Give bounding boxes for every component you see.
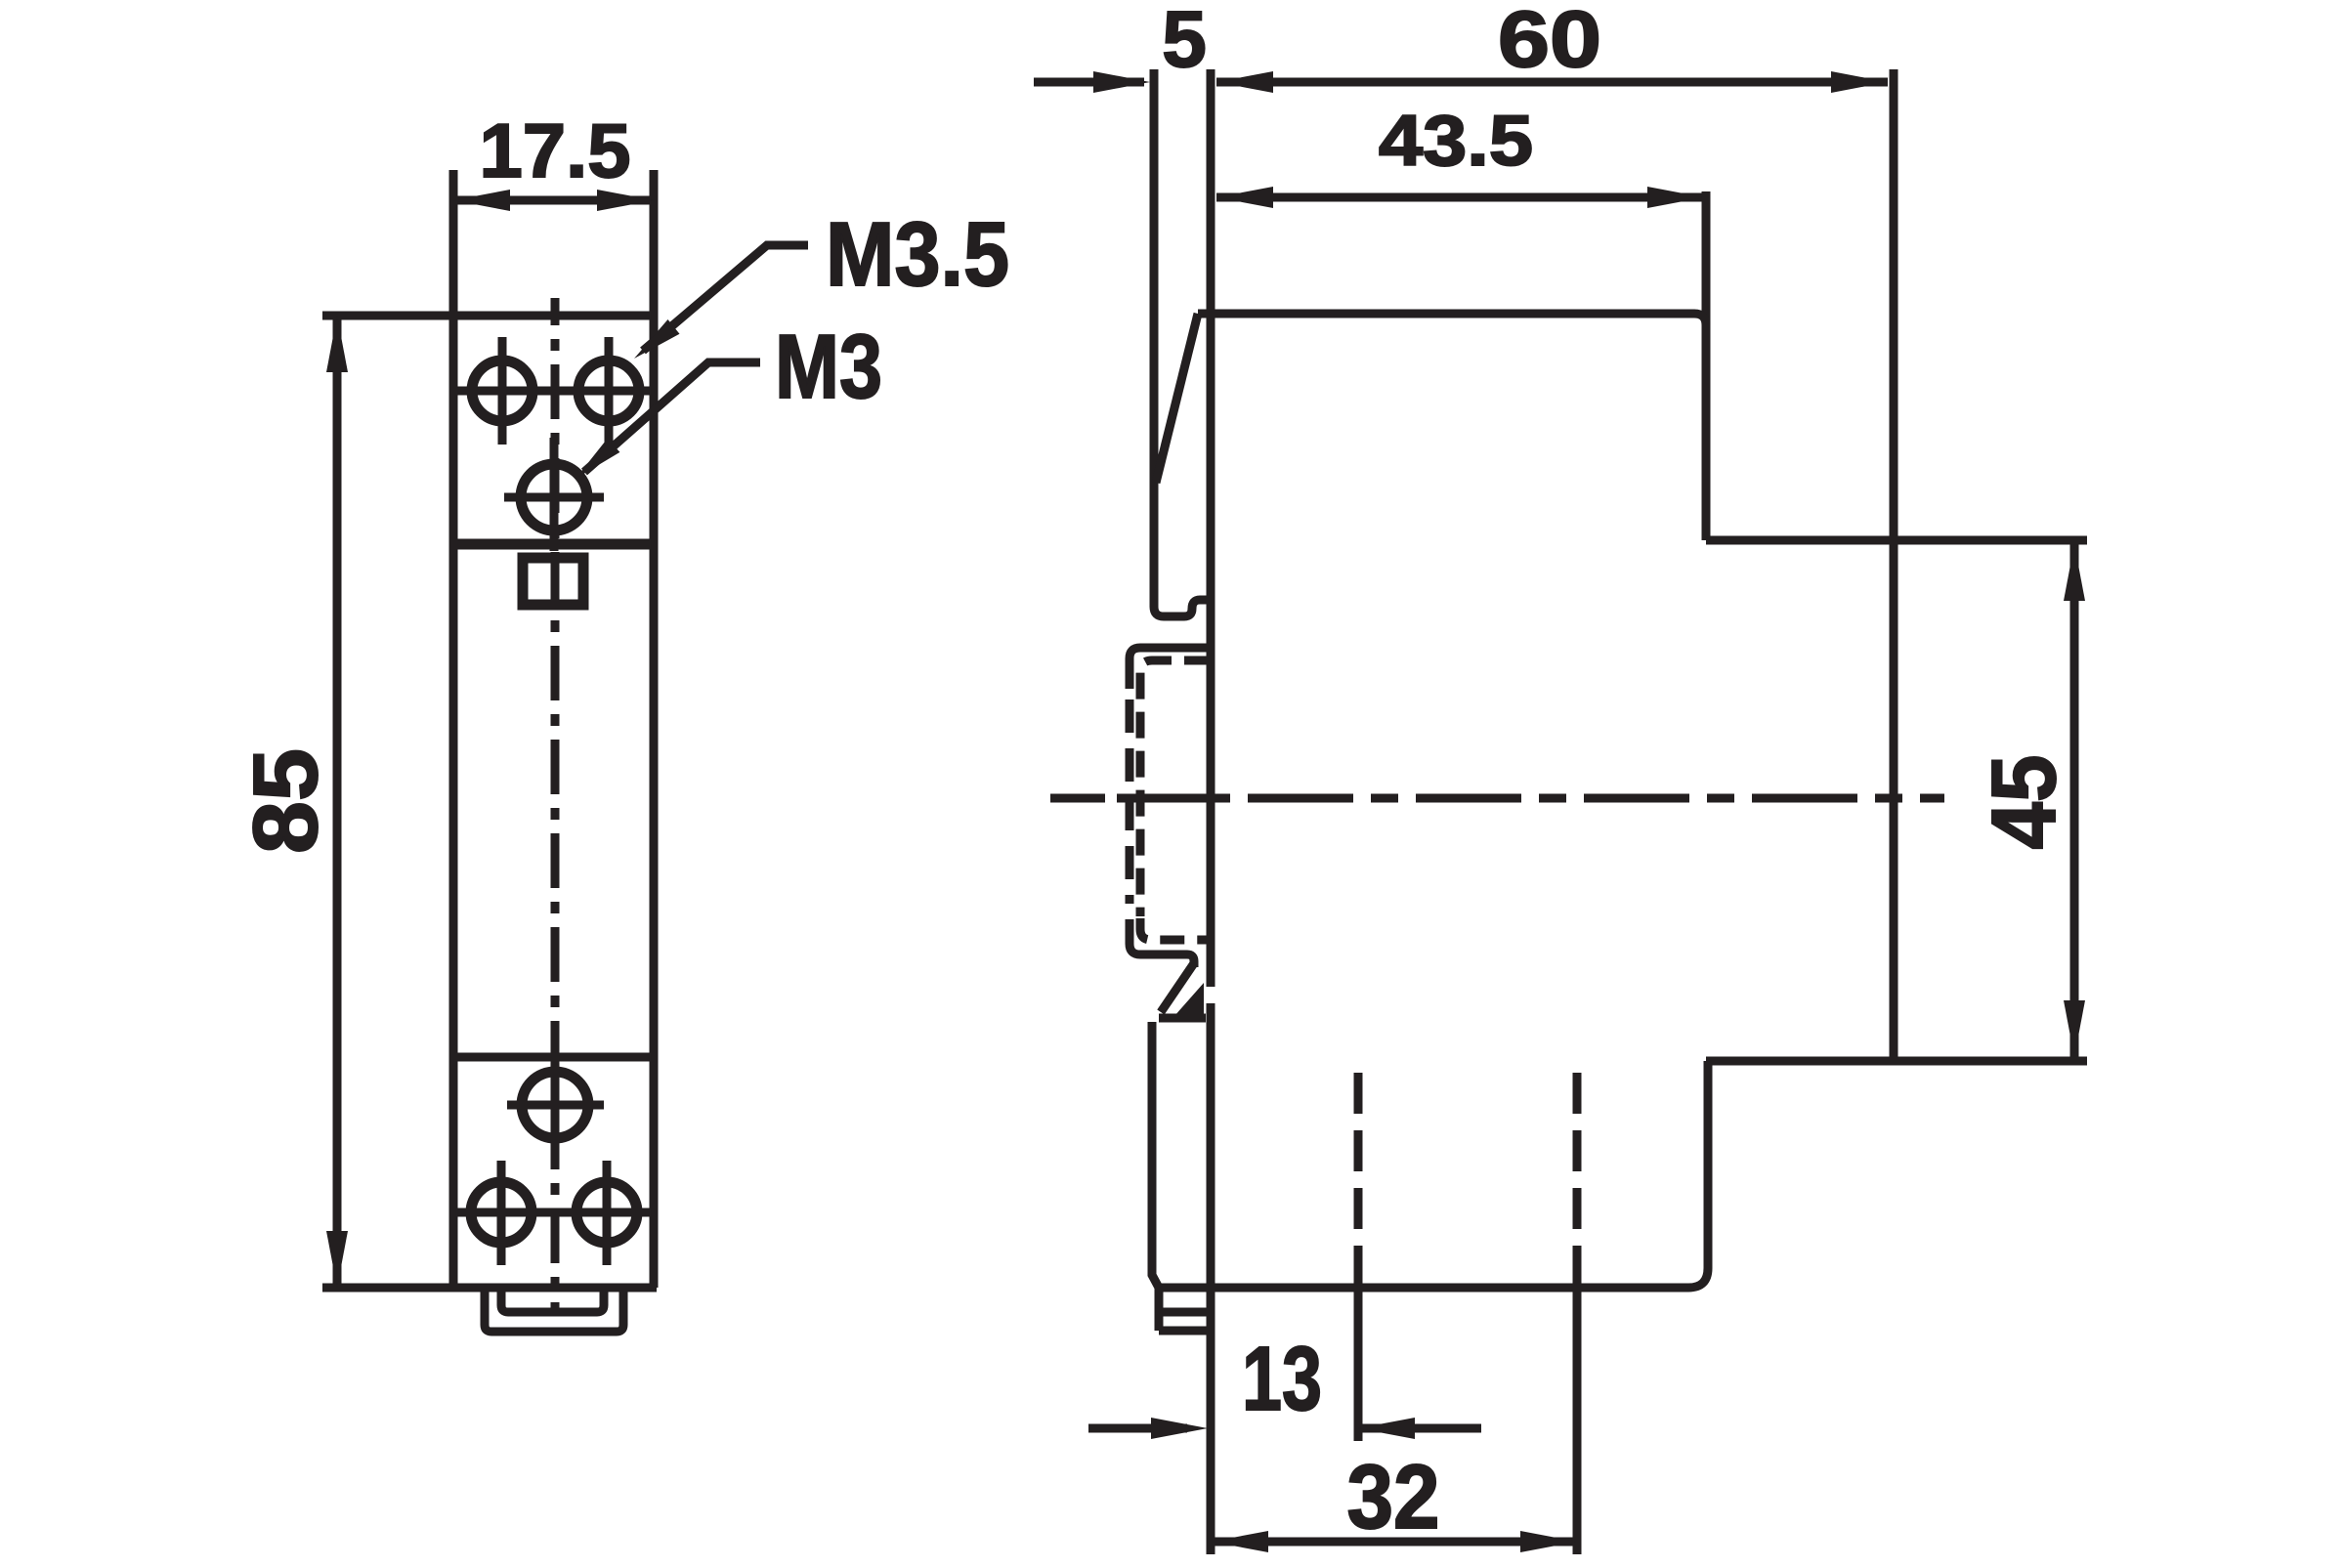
svg-text:17.5: 17.5 (480, 107, 631, 193)
lower right edge of module (1159, 1061, 1708, 1288)
svg-text:32: 32 (1347, 1446, 1440, 1547)
bottom-right crosshair vertical (603, 1161, 612, 1265)
M3.5 right: circle (578, 360, 639, 421)
module top edge (side view) (1198, 314, 1706, 325)
M3 crosshair vertical (550, 438, 559, 551)
terminal screw M3.5 left: circle (472, 360, 533, 421)
bottom-left crosshair vertical (497, 1161, 506, 1265)
arrowhead 85 top (326, 316, 348, 372)
arrowhead 60 right (1831, 71, 1888, 93)
M3.5 left crosshair vertical (498, 337, 507, 445)
clip spring dashed line outer (1126, 699, 1134, 904)
dimension line 60 (1216, 78, 1888, 87)
bottom foot bottom bar (1159, 1327, 1208, 1335)
bottom foot middle bar (1159, 1308, 1208, 1317)
43.5 extension line / upper right edge of module (1702, 191, 1711, 540)
dimension line 43.5 (1216, 193, 1704, 202)
step at top of deep section (1706, 536, 2087, 545)
arrowhead 13 pointing left (1358, 1418, 1415, 1439)
arrowhead 32 left (1212, 1531, 1268, 1552)
arrowhead M3.5 leader (634, 319, 680, 359)
M3.5 right crosshair vertical (605, 337, 614, 445)
dimension line 17.5 (453, 196, 654, 205)
arrowhead 5 pointing right (1093, 71, 1150, 93)
svg-text:60: 60 (1498, 0, 1601, 84)
svg-text:5: 5 (1162, 0, 1207, 84)
hidden dashed line 32 (inside module) (1573, 1073, 1582, 1273)
svg-text:43.5: 43.5 (1379, 102, 1533, 181)
bottom screw crosshair horizontal (507, 1101, 604, 1110)
clip lower dashed elbow (1140, 918, 1211, 940)
DIN foot outer U below module (485, 1292, 623, 1332)
module right edge extension to 17.5 dim (650, 170, 659, 316)
arrowhead 17.5 right (597, 190, 654, 211)
DIN clip top hook (1154, 598, 1211, 616)
arrowhead 13 left pointing right (1151, 1418, 1208, 1439)
module outline left edge (449, 316, 458, 1288)
extension line for 32 right below module (1573, 1273, 1582, 1554)
horizontal center line (dash-dot) (1248, 794, 1944, 803)
extension line for 13 below module (1354, 1288, 1363, 1441)
step at bottom of deep section (1706, 1057, 2087, 1066)
latch slot white break (1206, 987, 1217, 1003)
crosshair horizontal through both M3.5 circles (453, 387, 654, 396)
module outline right edge (650, 316, 659, 1288)
svg-text:M3: M3 (775, 316, 882, 417)
back plane extension line / back face upper (1150, 69, 1159, 600)
arrowhead M3 leader (576, 439, 619, 479)
center line of module (dash-dot) (551, 298, 560, 1315)
front face extension + front face upper segment (1890, 69, 1898, 540)
terminal section line upper (453, 539, 654, 550)
svg-text:85: 85 (234, 748, 336, 854)
center line solid crossing at clip (1117, 794, 1230, 803)
arrowhead 17.5 left (453, 190, 510, 211)
module top edge / 85 top extension line (322, 312, 657, 320)
arrowhead 45 bottom (2064, 1000, 2085, 1057)
back face lower (1152, 1022, 1159, 1288)
clip lower solid elbow (1130, 919, 1194, 967)
indicator square symbol (523, 558, 583, 605)
arrowhead 45 top (2064, 544, 2085, 601)
terminal section line lower (453, 1053, 654, 1062)
horizontal center line left dash (1050, 794, 1105, 803)
M3 crosshair horizontal (504, 493, 604, 502)
DIN foot inner U (501, 1292, 604, 1312)
arrowhead 32 right (1520, 1531, 1577, 1552)
latch bottom line (1159, 1014, 1206, 1023)
bottom screw crosshair vertical (551, 1066, 560, 1161)
latch triangle tip (1174, 983, 1204, 1016)
bottom screw: circle (522, 1072, 588, 1138)
latch diagonal edge (1161, 963, 1194, 1012)
dimension 13: outside arrow tail left (1088, 1424, 1187, 1433)
dimension line 85 (333, 316, 342, 1288)
svg-text:45: 45 (1973, 755, 2074, 850)
svg-text:M3.5: M3.5 (826, 203, 1009, 305)
dimension 13: right arrow tail (1358, 1424, 1481, 1433)
dimension 5: outside arrow tail left (1034, 78, 1144, 87)
terminal screw M3: circle (521, 464, 587, 530)
dimension line 32 (1212, 1538, 1577, 1547)
hidden dashed line 13 (inside module) (1354, 1073, 1363, 1288)
module left edge extension to 17.5 dim (449, 170, 458, 316)
leader line M3 (584, 362, 760, 472)
arrowhead 60 left (1216, 71, 1273, 93)
arrowhead 43.5 right (1647, 187, 1704, 208)
module bottom edge / 85 bottom extension line (322, 1284, 657, 1293)
bottom foot left edge (1155, 1288, 1164, 1331)
svg-text:13: 13 (1242, 1328, 1322, 1429)
front face of deep section (1890, 540, 1898, 1061)
bottom-left screw: circle (471, 1182, 532, 1243)
top-left slanted back (1156, 314, 1198, 483)
clip spring dashed elbow inner (1140, 660, 1211, 916)
rail plane vertical (runs to bottom extension) (1207, 69, 1215, 1554)
crosshair horizontal through both bottom screws (453, 1208, 654, 1217)
bottom-right screw: circle (576, 1182, 637, 1243)
clip spring solid elbow (1130, 648, 1211, 689)
arrowhead 43.5 left (1216, 187, 1273, 208)
arrowhead 85 bottom (326, 1231, 348, 1288)
leader line M3.5 (643, 245, 808, 351)
dimension line 45 (2070, 544, 2079, 1057)
